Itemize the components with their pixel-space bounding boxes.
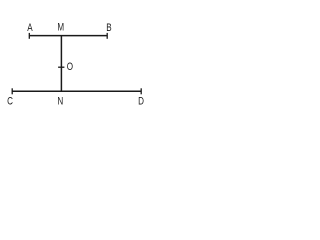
end tick at A: [28, 33, 30, 39]
svg-text:C: C: [7, 95, 13, 107]
tick at point O: [58, 66, 64, 68]
svg-text:N: N: [57, 95, 63, 107]
svg-text:B: B: [106, 22, 111, 34]
end tick at C: [11, 88, 13, 94]
svg-text:D: D: [138, 95, 144, 107]
end tick at B: [106, 33, 108, 39]
segment CD (bottom horizontal line): [12, 90, 141, 92]
segment MN (vertical line): [60, 36, 62, 92]
svg-text:A: A: [27, 22, 33, 34]
segment AB (top horizontal line): [29, 35, 107, 37]
svg-text:O: O: [67, 61, 73, 73]
end tick at D: [140, 88, 142, 94]
svg-text:M: M: [57, 22, 64, 34]
